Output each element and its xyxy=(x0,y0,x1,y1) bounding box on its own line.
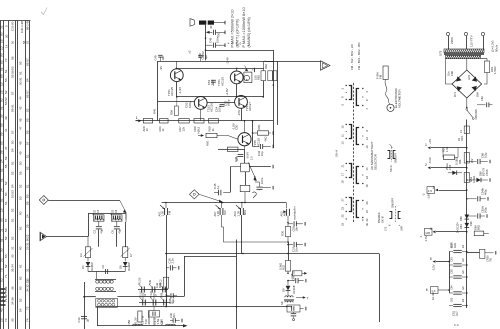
svg-text:45: 45 xyxy=(18,118,22,122)
volume potentiometer R41 xyxy=(241,163,250,172)
svg-text:1.5: 1.5 xyxy=(428,189,432,193)
svg-text:88-1-98: 88-1-98 xyxy=(26,20,30,30)
capacitor C47 to terminal xyxy=(259,182,261,187)
svg-text:10n: 10n xyxy=(447,71,451,76)
mixer small box xyxy=(149,311,160,318)
svg-text:E1.3Ω: E1.3Ω xyxy=(431,292,435,300)
oscillator coil row 2 xyxy=(96,287,99,290)
svg-text:1.5kΩ: 1.5kΩ xyxy=(493,66,497,74)
svg-text:51: 51 xyxy=(4,201,8,205)
wire T3 emitter xyxy=(200,109,202,121)
FM probe box xyxy=(383,66,388,80)
svg-text:52: 52 xyxy=(10,171,14,175)
svg-text:10n: 10n xyxy=(295,226,299,231)
resistor R65 xyxy=(273,71,277,81)
svg-text:53: 53 xyxy=(4,78,8,82)
transistor T155 xyxy=(238,133,251,146)
svg-text:74: 74 xyxy=(4,318,8,322)
switch bank dashed line xyxy=(353,83,355,222)
svg-text:0.3kΩ: 0.3kΩ xyxy=(472,176,476,183)
svg-text:R58: R58 xyxy=(211,79,215,85)
svg-text:54: 54 xyxy=(10,184,14,188)
ferrite arrow xyxy=(183,324,188,327)
svg-text:R50: R50 xyxy=(0,317,1,323)
svg-text:1.05: 1.05 xyxy=(216,211,220,217)
amplifier right inner edge xyxy=(277,61,279,125)
wire A05 column down xyxy=(288,242,290,261)
parts table column lines xyxy=(0,21,2,329)
wire T1 emitter xyxy=(176,82,178,97)
resistor R54 xyxy=(194,119,204,123)
switch A05 xyxy=(286,209,288,216)
svg-text:10n: 10n xyxy=(295,247,299,252)
earphone jack xyxy=(244,72,252,83)
svg-text:4kΩ: 4kΩ xyxy=(264,137,268,142)
svg-text:3: 3 xyxy=(432,185,434,189)
arrow into jack xyxy=(245,66,248,71)
SK-A contact group y135.5 xyxy=(349,125,352,139)
amplifier box top xyxy=(158,61,274,63)
capacitor C66 xyxy=(467,161,477,163)
transistor T153 xyxy=(194,97,207,110)
capacitor C10 xyxy=(81,315,87,317)
pot wiper arrow xyxy=(248,163,256,181)
svg-text:R61: R61 xyxy=(257,124,261,129)
svg-text:C60: C60 xyxy=(450,243,453,248)
svg-text:1.5k: 1.5k xyxy=(445,146,449,152)
svg-text:68Ω: 68Ω xyxy=(477,225,481,230)
svg-text:33: 33 xyxy=(10,254,14,258)
amplifier right column xyxy=(273,50,275,148)
svg-text:+6V: +6V xyxy=(428,139,432,144)
svg-text:(MAINS) (d=10%): (MAINS) (d=10%) xyxy=(247,16,251,47)
mains terminal 3 xyxy=(481,32,484,35)
terminal pot xyxy=(272,165,274,169)
svg-text:-1.5V: -1.5V xyxy=(424,235,428,242)
terminal speaker xyxy=(224,21,226,25)
svg-text:C49: C49 xyxy=(154,55,158,60)
terminal C57 xyxy=(224,31,226,35)
svg-text:55 57: 55 57 xyxy=(25,58,29,66)
capacitor C9 xyxy=(105,269,107,274)
svg-text:17: 17 xyxy=(340,172,344,176)
ferrite rod line xyxy=(97,325,183,327)
terminal edge xyxy=(495,251,497,255)
resistor R55 xyxy=(209,119,219,123)
bridge output wire xyxy=(466,98,468,108)
svg-text:10: 10 xyxy=(145,128,149,132)
svg-text:36: 36 xyxy=(10,286,14,290)
arrow 5 xyxy=(436,261,449,263)
svg-text:35 34: 35 34 xyxy=(10,264,14,272)
svg-text:57: 57 xyxy=(25,141,29,145)
svg-text:MW: MW xyxy=(243,210,247,215)
capacitor C82 xyxy=(477,104,486,106)
mixer transistor labels xyxy=(138,311,142,322)
svg-text:31: 31 xyxy=(25,268,29,272)
terminal earphone xyxy=(252,69,253,71)
svg-text:24: 24 xyxy=(25,214,29,218)
svg-text:7CR: 7CR xyxy=(0,231,1,238)
svg-text:49: 49 xyxy=(4,116,8,120)
svg-text:50: 50 xyxy=(11,40,15,44)
svg-text:AC125: AC125 xyxy=(170,87,174,96)
arrow input 2 xyxy=(198,135,203,137)
svg-text:A05: A05 xyxy=(282,211,286,216)
SK-A contact group y174.5 xyxy=(349,164,352,178)
svg-text:23 31 30: 23 31 30 xyxy=(25,238,29,250)
ladder capacitor C62 xyxy=(449,276,453,278)
resistor R48 feedback xyxy=(218,149,245,151)
svg-text:47: 47 xyxy=(18,126,22,130)
left tuner column xyxy=(84,282,86,329)
svg-text:-3.5V: -3.5V xyxy=(432,264,436,271)
svg-text:40p: 40p xyxy=(118,228,122,233)
svg-text:54: 54 xyxy=(18,308,22,312)
svg-text:SELECTOR: SELECTOR xyxy=(373,154,377,170)
svg-text:55 57: 55 57 xyxy=(25,90,29,98)
svg-text:52: 52 xyxy=(4,236,8,240)
tuner top rail xyxy=(88,213,126,215)
svg-text:71 52 75: 71 52 75 xyxy=(4,290,8,302)
svg-text:C7: C7 xyxy=(129,253,133,257)
gang frame vertical xyxy=(236,240,238,329)
capacitor C18 xyxy=(166,267,169,269)
svg-text:10n: 10n xyxy=(161,55,165,60)
svg-text:S40: S40 xyxy=(148,279,152,284)
svg-text:5: 5 xyxy=(430,257,432,261)
svg-text:×: × xyxy=(236,42,238,46)
svg-text:48: 48 xyxy=(18,141,22,145)
svg-text:51: 51 xyxy=(0,228,3,232)
transistor T154 xyxy=(235,96,248,109)
resistor R13 xyxy=(163,277,168,288)
svg-text:15: 15 xyxy=(340,125,344,129)
wire to oscillator coils xyxy=(96,272,98,280)
capacitor C63 xyxy=(467,215,477,217)
terminal C38 xyxy=(305,279,307,283)
mixer switch row 2 xyxy=(142,300,144,306)
svg-text:S1.07: S1.07 xyxy=(138,290,142,297)
svg-text:51: 51 xyxy=(25,184,29,188)
resistor R60 xyxy=(467,232,474,234)
svg-text:-0.9V: -0.9V xyxy=(246,152,250,159)
svg-text:C3: C3 xyxy=(79,253,83,257)
wire T4 emitter xyxy=(241,108,243,121)
coil S3 box xyxy=(112,215,123,221)
diode D4 xyxy=(87,258,89,262)
wire top rail to right column xyxy=(206,50,274,52)
svg-text:SW: SW xyxy=(223,210,227,215)
squiggle to voltmeter xyxy=(385,80,389,103)
svg-text:100n: 100n xyxy=(260,177,264,184)
IF transformer S9 xyxy=(287,291,289,296)
svg-text:C5V6: C5V6 xyxy=(485,169,489,176)
svg-text:49: 49 xyxy=(18,151,22,155)
terminal C58 xyxy=(304,222,306,226)
svg-text:-0.5V: -0.5V xyxy=(237,109,241,116)
box E15 xyxy=(427,187,435,194)
terminal C44 xyxy=(272,145,274,149)
svg-text:52: 52 xyxy=(25,108,29,112)
diamond input symbol xyxy=(190,190,200,199)
svg-text:22: 22 xyxy=(365,218,369,222)
wire A03 down xyxy=(241,215,243,254)
ladder capacitor C61 xyxy=(449,264,453,266)
junction output column xyxy=(205,37,207,39)
svg-text:41: 41 xyxy=(4,128,8,132)
svg-text:R60: R60 xyxy=(205,140,209,146)
svg-text:R46: R46 xyxy=(152,109,156,114)
svg-text:FM: FM xyxy=(168,210,172,215)
resistor R56 under T1 xyxy=(176,97,178,106)
parts table left strip dark block xyxy=(0,288,6,290)
junction right column xyxy=(273,84,275,86)
svg-text:OA90P: OA90P xyxy=(127,262,131,271)
resistor R64 xyxy=(268,71,273,81)
svg-text:760: 760 xyxy=(0,115,1,121)
svg-text:C61: C61 xyxy=(450,257,453,262)
svg-text:58 91: 58 91 xyxy=(10,104,14,112)
svg-text:13: 13 xyxy=(340,141,344,145)
svg-text:R41: R41 xyxy=(235,156,239,161)
detector box xyxy=(287,305,300,312)
svg-text:44: 44 xyxy=(18,96,22,100)
svg-text:89T: 89T xyxy=(0,147,1,153)
svg-text:65: 65 xyxy=(0,278,3,282)
FM probe triangle xyxy=(321,61,331,70)
svg-text:194: 194 xyxy=(0,27,1,33)
svg-text:57: 57 xyxy=(10,91,14,95)
ladder capacitor C64 xyxy=(449,292,453,294)
arrow diamond to bus xyxy=(199,194,222,202)
terminal D60 xyxy=(489,178,491,182)
svg-text:52: 52 xyxy=(10,208,14,212)
svg-text:S75: S75 xyxy=(439,50,443,56)
fuse F1 xyxy=(464,126,469,134)
svg-text:VOLTMETER: VOLTMETER xyxy=(398,89,402,108)
svg-text:200μ: 200μ xyxy=(484,207,488,213)
wire tuner columns xyxy=(87,237,89,247)
svg-text:C10: C10 xyxy=(77,317,81,322)
terminal C48 xyxy=(224,43,226,47)
svg-text:54: 54 xyxy=(10,148,14,152)
svg-text:50: 50 xyxy=(10,140,14,144)
wire center tap to bridge xyxy=(466,59,468,70)
bridge diode D80 xyxy=(456,76,461,81)
wire pot left branch xyxy=(230,166,241,168)
terminal C18 xyxy=(178,266,180,270)
svg-text:A1.50: A1.50 xyxy=(137,277,141,284)
svg-text:0.3kΩ: 0.3kΩ xyxy=(278,263,282,270)
svg-text:80: 80 xyxy=(18,246,22,250)
svg-text:C30-1-98: C30-1-98 xyxy=(20,21,24,33)
svg-text:C48: C48 xyxy=(208,37,212,43)
svg-text:ON/OFF: ON/OFF xyxy=(394,152,398,163)
svg-text:0.5μ: 0.5μ xyxy=(484,152,488,158)
bridge rectifier xyxy=(452,70,482,98)
svg-text:x2: x2 xyxy=(188,50,192,53)
svg-text:10: 10 xyxy=(365,145,369,149)
svg-text:R30: R30 xyxy=(281,230,285,236)
wire T3-T4 link xyxy=(207,102,235,104)
svg-text:C47: C47 xyxy=(253,175,257,181)
svg-text:OA90P: OA90P xyxy=(90,262,94,271)
svg-text:-0.3V: -0.3V xyxy=(134,317,138,324)
svg-text:D84: D84 xyxy=(475,92,479,97)
arrow 6 box xyxy=(431,287,439,294)
svg-text:55C: 55C xyxy=(0,163,1,170)
trimmer C7 xyxy=(123,247,128,258)
svg-text:14: 14 xyxy=(365,167,369,171)
svg-text:-1.8V: -1.8V xyxy=(427,193,431,200)
svg-text:D4: D4 xyxy=(81,265,85,269)
bias rail xyxy=(177,96,263,98)
ferrite coil 1 xyxy=(133,324,143,326)
svg-text:33: 33 xyxy=(340,222,344,226)
svg-text:11: 11 xyxy=(340,134,344,137)
svg-text:74: 74 xyxy=(4,58,8,62)
diode D8 xyxy=(124,258,126,262)
svg-text:mw/sdy/fm: mw/sdy/fm xyxy=(293,206,297,220)
collector rail xyxy=(176,68,264,70)
svg-text:R56: R56 xyxy=(170,110,174,115)
svg-text:9T7: 9T7 xyxy=(0,198,1,204)
svg-text:92: 92 xyxy=(18,61,22,65)
capacitor C59 xyxy=(288,244,293,246)
svg-text:2DR8SDE: 2DR8SDE xyxy=(147,311,151,325)
trimmer C3 xyxy=(85,247,90,258)
svg-text:12k: 12k xyxy=(181,126,185,131)
wire T5 collector xyxy=(244,121,246,133)
svg-text:71: 71 xyxy=(4,274,8,278)
svg-text:C62: C62 xyxy=(450,269,453,274)
svg-text:52: 52 xyxy=(10,236,14,240)
transistor T152 xyxy=(236,68,238,71)
svg-text:-1.9V: -1.9V xyxy=(178,87,182,94)
svg-text:55: 55 xyxy=(4,164,8,168)
svg-text:55 56: 55 56 xyxy=(10,70,14,78)
svg-text:C74: C74 xyxy=(0,55,1,61)
capacitor C54b xyxy=(467,198,477,200)
svg-text:D8: D8 xyxy=(118,265,122,269)
svg-text:C64: C64 xyxy=(450,285,453,290)
svg-text:50: 50 xyxy=(4,192,8,196)
resistor R51 xyxy=(143,119,152,123)
ladder left vertical xyxy=(449,252,451,294)
diode D50 xyxy=(465,215,470,219)
amplifier box left xyxy=(157,61,159,121)
switch A03 MW xyxy=(240,208,242,215)
transistor T151 xyxy=(175,61,177,69)
svg-text:25mA: 25mA xyxy=(445,163,449,170)
electronic voltmeter circle xyxy=(387,104,394,111)
coil S2 box xyxy=(94,215,105,221)
transformer core xyxy=(444,53,484,55)
capacitor C52 xyxy=(211,79,216,81)
mixer row1 rail xyxy=(138,289,168,291)
coil box S1 xyxy=(96,298,118,307)
svg-text:1μ: 1μ xyxy=(216,185,220,189)
svg-text:53 53: 53 53 xyxy=(10,190,14,198)
svg-text:52: 52 xyxy=(18,184,22,188)
resistor row rail xyxy=(136,120,274,122)
capacitor C2 xyxy=(98,221,100,226)
zener D60 xyxy=(467,179,476,181)
svg-text:1: 1 xyxy=(136,116,138,120)
svg-text:47: 47 xyxy=(4,146,8,150)
capacitor C38 xyxy=(288,280,295,282)
AGC rail xyxy=(96,306,290,308)
transformer secondary xyxy=(446,55,481,58)
wire jack to FM probe xyxy=(265,61,321,63)
svg-text:43: 43 xyxy=(0,308,3,312)
capacitor C53 coupling xyxy=(238,154,244,156)
terminal C47 xyxy=(272,186,274,190)
svg-text:D9: D9 xyxy=(282,288,286,292)
diamond FM aerial symbol xyxy=(39,196,48,205)
svg-text:MW: MW xyxy=(127,319,131,324)
svg-text:FM - SW - MW - LW: FM - SW - MW - LW xyxy=(350,44,354,70)
gang frame stub xyxy=(184,256,237,258)
rail 2 xyxy=(431,167,467,169)
svg-text:C38: C38 xyxy=(290,273,294,278)
svg-text:C6: C6 xyxy=(111,230,115,234)
svg-text:55: 55 xyxy=(25,130,29,134)
stray check mark xyxy=(41,8,47,15)
terminal C54b xyxy=(487,197,489,201)
capacitor C48 100n xyxy=(206,44,213,46)
svg-text:81: 81 xyxy=(0,178,3,182)
wire T3 base xyxy=(158,101,195,103)
svg-text:9R7: 9R7 xyxy=(0,283,1,289)
resistor R57 xyxy=(442,148,444,155)
svg-text:862: 862 xyxy=(0,84,1,90)
svg-text:55: 55 xyxy=(26,40,30,44)
svg-text:52: 52 xyxy=(4,181,8,185)
svg-text:220V: 220V xyxy=(450,36,454,44)
svg-text:1.05: 1.05 xyxy=(160,211,164,217)
svg-text:40: 40 xyxy=(209,25,213,29)
antenna symbol xyxy=(39,232,41,241)
svg-text:AC125: AC125 xyxy=(256,138,260,147)
svg-text:2p: 2p xyxy=(86,318,90,322)
svg-text:53: 53 xyxy=(25,118,29,122)
wire A07 down then right xyxy=(222,215,289,242)
mixer switch row 1 xyxy=(141,287,143,293)
svg-text:53: 53 xyxy=(25,194,29,198)
svg-text:20: 20 xyxy=(365,201,369,205)
mixer row2 rail xyxy=(139,302,170,304)
wire speaker to terminal xyxy=(214,22,223,24)
capacitor C57 750 xyxy=(210,31,213,33)
svg-text:GR1: GR1 xyxy=(468,74,471,80)
svg-text:1W8: 1W8 xyxy=(402,225,404,231)
lower tuner rail xyxy=(88,271,125,273)
svg-text:27: 27 xyxy=(340,198,344,202)
svg-text:57: 57 xyxy=(4,218,8,222)
capacitor C6 xyxy=(116,221,118,226)
wire coil box to mixer xyxy=(117,296,184,298)
bus corner to A05 xyxy=(285,203,287,209)
junction T5 collector xyxy=(244,120,246,122)
svg-text:23: 23 xyxy=(340,206,344,210)
ladder capacitor C65 xyxy=(449,305,453,307)
svg-text:25V: 25V xyxy=(471,158,474,163)
parts table top border xyxy=(0,20,30,22)
svg-text:911: 911 xyxy=(0,70,1,75)
long horizontal net xyxy=(166,253,379,255)
